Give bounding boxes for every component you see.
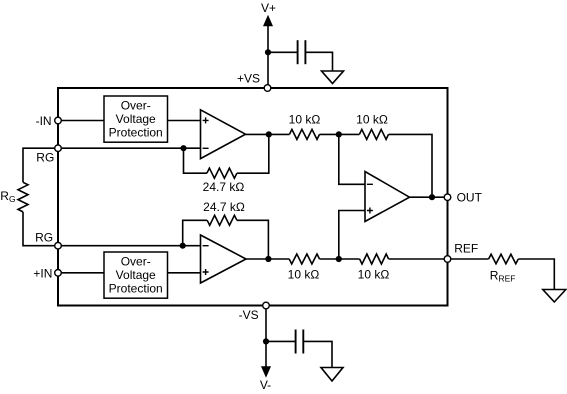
- junction dot A1 output: [266, 131, 272, 137]
- svg-text:V-: V-: [260, 378, 271, 392]
- svg-text:RG: RG: [36, 151, 54, 165]
- power arrow V-: [260, 366, 271, 392]
- wire R2 to output node feedback: [389, 134, 433, 197]
- svg-text:24.7 kΩ: 24.7 kΩ: [203, 200, 245, 214]
- over-voltage protection block U2: [104, 252, 168, 298]
- wire OVP1 to A1 noninverting input: [168, 120, 201, 122]
- svg-text:REF: REF: [454, 242, 478, 256]
- label +VS: [237, 71, 260, 85]
- wire R1 to node A: [320, 133, 360, 135]
- svg-text:Protection: Protection: [109, 126, 163, 140]
- svg-text:RREF: RREF: [490, 269, 516, 284]
- wire +IN to OVP2: [58, 272, 104, 274]
- wire V+ supply vertical: [267, 22, 269, 88]
- svg-text:RG: RG: [0, 189, 15, 204]
- pin OUT terminal circle: [444, 194, 451, 201]
- junction dot output node: [429, 194, 435, 200]
- wire A2 feedback left leg: [183, 220, 208, 245]
- pin +VS terminal circle: [264, 85, 271, 92]
- svg-text:Voltage: Voltage: [116, 112, 156, 126]
- svg-text:+IN: +IN: [33, 266, 52, 280]
- pin RG2 terminal circle: [55, 242, 62, 249]
- svg-text:10 kΩ: 10 kΩ: [288, 268, 320, 282]
- wire A1 output: [246, 133, 290, 135]
- ground right: [543, 290, 566, 303]
- wire A1 feedback left leg: [184, 148, 207, 173]
- ground bottom: [321, 368, 343, 382]
- junction dot node A: [336, 131, 342, 137]
- wire A3 output to OUT: [410, 196, 448, 198]
- label RG bottom: [35, 231, 53, 245]
- resistor RF2 24.7 k feedback: [203, 200, 245, 225]
- wire A1 feedback right leg: [237, 134, 269, 173]
- op-amp A1: [201, 110, 246, 159]
- wire OVP2 to A2 noninverting input: [168, 272, 201, 274]
- junction dot bottom supply: [263, 338, 269, 344]
- wire node A to A3 inverting input: [339, 134, 365, 184]
- svg-text:Protection: Protection: [109, 282, 163, 296]
- capacitor C1: [298, 40, 306, 64]
- svg-text:V+: V+: [261, 1, 276, 15]
- wire -IN to OVP1: [58, 120, 104, 122]
- label OUT: [457, 191, 483, 205]
- wire junction to C1: [268, 51, 298, 53]
- resistor R1 10 k: [289, 112, 321, 139]
- label REF: [454, 242, 478, 256]
- pin REF terminal circle: [444, 256, 451, 263]
- pin -IN terminal circle: [55, 117, 62, 124]
- resistor R2 10 k: [356, 112, 388, 139]
- over-voltage protection block U1: [104, 96, 168, 142]
- ground top: [322, 71, 344, 84]
- svg-text:10 kΩ: 10 kΩ: [358, 268, 390, 282]
- wire junction to C2: [266, 340, 296, 342]
- label RG top: [36, 151, 54, 165]
- svg-text:OUT: OUT: [457, 191, 483, 205]
- svg-text:10 kΩ: 10 kΩ: [289, 112, 321, 126]
- pin -VS terminal circle: [263, 302, 270, 309]
- svg-text:Over-: Over-: [121, 99, 151, 113]
- label -VS: [239, 308, 259, 322]
- pin +IN terminal circle: [55, 270, 62, 277]
- capacitor C2: [296, 330, 304, 354]
- svg-text:10 kΩ: 10 kΩ: [356, 112, 388, 126]
- resistor RG external gain resistor: [0, 182, 28, 212]
- wire R3 to node B: [320, 258, 360, 260]
- label -IN: [36, 114, 52, 128]
- resistor R3 10 k: [288, 254, 320, 282]
- svg-text:-VS: -VS: [239, 308, 259, 322]
- junction dot node B: [336, 256, 342, 262]
- junction dot top supply: [265, 49, 271, 55]
- wire external RG loop: [23, 148, 58, 246]
- svg-text:Over-: Over-: [121, 255, 151, 269]
- wire node B to A3 noninverting input: [339, 211, 365, 260]
- junction dot A1 inverting node: [180, 145, 186, 151]
- wire -VS to V-: [265, 306, 267, 368]
- svg-text:Voltage: Voltage: [116, 268, 156, 282]
- wire A2 output: [246, 258, 289, 260]
- wire RG1 row to A1 inverting input: [58, 147, 201, 149]
- op-amp A2: [201, 235, 247, 283]
- resistor R4 10 k: [358, 254, 390, 282]
- junction dot A2 output: [265, 256, 271, 262]
- resistor RREF: [489, 254, 519, 283]
- resistor RF1 24.7 k feedback: [203, 168, 245, 194]
- svg-text:+VS: +VS: [237, 71, 260, 85]
- power arrow V+: [261, 1, 276, 27]
- wire R4 to REF pin: [389, 258, 448, 260]
- svg-text:RG: RG: [35, 231, 53, 245]
- op-amp A3 output stage: [365, 172, 410, 222]
- wire C2 to ground: [303, 341, 332, 367]
- svg-text:24.7 kΩ: 24.7 kΩ: [203, 180, 245, 194]
- wire RREF to ground: [518, 259, 554, 290]
- pin RG1 terminal circle: [55, 145, 62, 152]
- svg-text:-IN: -IN: [36, 114, 52, 128]
- IC boundary rectangle: [58, 88, 448, 306]
- wire REF to RREF: [448, 258, 489, 260]
- wire A2 feedback right leg: [237, 220, 269, 259]
- wire C1 to ground: [305, 52, 332, 71]
- label +IN: [33, 266, 52, 280]
- junction dot A2 inverting node: [180, 243, 186, 249]
- wire RG2 row to A2 inverting input: [58, 245, 201, 247]
